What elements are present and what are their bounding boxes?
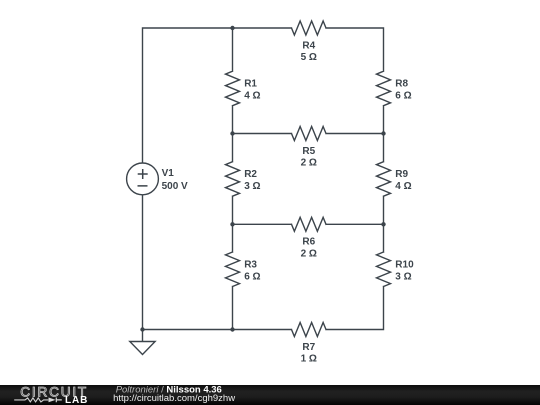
svg-text:3 Ω: 3 Ω	[244, 181, 260, 192]
svg-text:R7: R7	[302, 342, 315, 353]
svg-text:6 Ω: 6 Ω	[395, 91, 411, 102]
svg-text:R8: R8	[395, 79, 408, 90]
svg-text:2 Ω: 2 Ω	[301, 249, 317, 260]
svg-text:R3: R3	[244, 259, 257, 270]
svg-text:LAB: LAB	[65, 395, 88, 405]
svg-text:4 Ω: 4 Ω	[244, 91, 260, 102]
svg-text:5 Ω: 5 Ω	[301, 52, 317, 63]
svg-text:http://circuitlab.com/cgh9zhw: http://circuitlab.com/cgh9zhw	[113, 393, 235, 404]
svg-text:4 Ω: 4 Ω	[395, 181, 411, 192]
svg-text:2 Ω: 2 Ω	[301, 158, 317, 169]
svg-text:R1: R1	[244, 79, 257, 90]
svg-text:R6: R6	[302, 237, 315, 248]
svg-text:V1: V1	[162, 168, 175, 179]
svg-text:6 Ω: 6 Ω	[244, 271, 260, 282]
svg-text:R5: R5	[302, 146, 315, 157]
svg-text:500 V: 500 V	[162, 181, 188, 192]
svg-text:R10: R10	[395, 259, 414, 270]
svg-text:R9: R9	[395, 169, 408, 180]
svg-text:3 Ω: 3 Ω	[395, 271, 411, 282]
svg-text:R4: R4	[302, 41, 315, 52]
svg-text:1 Ω: 1 Ω	[301, 354, 317, 365]
svg-text:R2: R2	[244, 169, 257, 180]
